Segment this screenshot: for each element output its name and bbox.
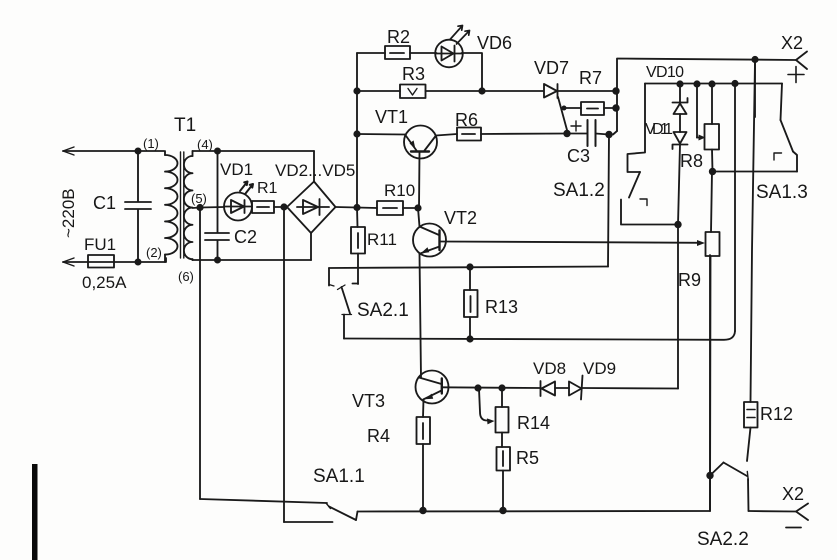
svg-text:VD7: VD7 — [534, 58, 569, 78]
wire bridge out to R10 — [336, 206, 358, 209]
wire bottom rail — [358, 255, 711, 512]
capacitor C3 — [567, 120, 609, 166]
node VD7 out — [612, 87, 619, 94]
potentiometer R9 — [678, 172, 720, 512]
wire corner to C3 minus — [609, 131, 617, 135]
wire to X2 minus — [749, 510, 797, 513]
svg-text:R4: R4 — [367, 426, 390, 446]
potentiometer R14 — [479, 388, 550, 447]
svg-text:R5: R5 — [516, 448, 539, 468]
svg-text:VT2: VT2 — [444, 208, 477, 228]
transformer T1 — [143, 115, 213, 284]
svg-text:VD2...VD5: VD2...VD5 — [275, 161, 355, 180]
node C1 top — [135, 148, 142, 155]
resistor R10 — [357, 181, 418, 215]
node R3/VD6 junction — [478, 87, 485, 94]
svg-text:C3: C3 — [567, 146, 590, 166]
svg-text:VD11: VD11 — [645, 121, 673, 138]
wire VD10 row — [645, 83, 782, 85]
wire bridge top drop — [313, 151, 315, 182]
switch SA1.1 — [200, 466, 365, 522]
node R7 left tap — [562, 106, 567, 111]
node VT1 row left — [353, 130, 360, 137]
wire pin5 row — [193, 207, 225, 208]
svg-text:~220В: ~220В — [59, 188, 78, 238]
svg-text:VD6: VD6 — [477, 33, 512, 53]
svg-text:(2): (2) — [146, 245, 162, 260]
resistor R11 — [351, 208, 397, 285]
zener VD11 — [645, 121, 688, 225]
node C2 top — [214, 148, 221, 155]
svg-text:C1: C1 — [93, 193, 116, 213]
node C3 plus — [563, 130, 570, 137]
wire left column — [356, 53, 358, 208]
svg-text:R9: R9 — [678, 270, 701, 290]
black scan bar — [32, 464, 38, 560]
wire secondary bottom rail (6) — [193, 259, 312, 261]
node R3 row left — [353, 87, 360, 94]
wire secondary top rail (4) — [193, 150, 315, 152]
svg-text:(6): (6) — [178, 269, 194, 284]
node C2 bottom — [214, 257, 221, 264]
switch SA1.2 — [553, 84, 678, 225]
svg-text:R7: R7 — [579, 68, 602, 88]
svg-text:VD8: VD8 — [533, 359, 566, 378]
node bridge out — [353, 204, 360, 211]
svg-text:VT1: VT1 — [375, 107, 408, 127]
resistor R2 — [357, 27, 437, 59]
resistor R5 — [497, 447, 540, 511]
svg-text:R12: R12 — [760, 404, 793, 424]
svg-text:(1): (1) — [143, 136, 159, 151]
wire R8 bottom row — [713, 171, 798, 173]
wire bridge bottom rise — [310, 233, 312, 260]
switch SA2.1 — [329, 268, 409, 339]
resistor R13 — [464, 267, 518, 339]
capacitor C1 — [93, 151, 151, 262]
node R8 top — [708, 80, 715, 87]
wire VT3 base row — [443, 386, 541, 389]
wire pin5 down to SA1.1 — [199, 208, 201, 500]
svg-text:SA1.2: SA1.2 — [553, 180, 605, 201]
node R13 bottom — [466, 335, 473, 342]
wire C3 minus down — [608, 135, 609, 267]
svg-text:R2: R2 — [387, 27, 410, 47]
transistor VT1 — [357, 107, 437, 208]
diode VD8 — [533, 359, 569, 396]
svg-text:SA2.1: SA2.1 — [357, 300, 409, 321]
node R8 bottom — [709, 168, 716, 175]
resistor R4 — [367, 417, 430, 511]
wire X2 plus column — [617, 59, 796, 132]
wire R1 node down to SA1.1 — [283, 207, 285, 522]
node R4 bottom — [419, 507, 426, 514]
svg-text:R8: R8 — [680, 151, 703, 171]
svg-text:VD10: VD10 — [646, 64, 684, 81]
diode VD9 — [569, 359, 678, 400]
svg-text:VT3: VT3 — [352, 391, 385, 411]
wire X2 plus down to R12 — [751, 62, 756, 402]
node pin5 — [196, 204, 203, 211]
svg-text:T1: T1 — [174, 115, 196, 136]
potentiometer R8 — [680, 84, 719, 172]
wire VT2 base to R9 wiper — [440, 242, 701, 243]
bridge rectifier VD2...VD5 — [275, 161, 355, 233]
node R10 right — [414, 204, 421, 211]
node C3 minus — [605, 131, 612, 138]
connector X2 minus — [782, 484, 808, 528]
svg-text:R3: R3 — [402, 64, 425, 84]
node R13 top — [466, 263, 473, 270]
svg-text:0,25A: 0,25A — [82, 273, 127, 292]
switch SA2.2 — [697, 463, 749, 551]
svg-text:R1: R1 — [257, 180, 278, 197]
wire right column x735 — [734, 84, 736, 332]
connector X2 plus — [781, 33, 807, 83]
wire AC bottom rail — [63, 258, 166, 262]
svg-text:X2: X2 — [782, 484, 804, 504]
resistor R6 — [436, 110, 567, 141]
svg-text:R10: R10 — [384, 181, 415, 200]
capacitor C2 — [205, 151, 257, 260]
node X2 top — [751, 56, 758, 63]
node x735 top — [731, 80, 738, 87]
svg-text:SA1.1: SA1.1 — [313, 466, 365, 487]
node C1 bottom — [135, 259, 142, 266]
node VD10 top — [676, 80, 683, 87]
fuse FU1 — [82, 235, 127, 292]
wire VD6 out corner — [462, 53, 483, 91]
node R14 top — [498, 384, 505, 391]
transistor VT3 — [352, 371, 449, 418]
switch SA1.3 — [755, 60, 808, 204]
arrow AC top — [63, 147, 74, 155]
resistor R3 — [357, 64, 482, 98]
svg-text:R11: R11 — [367, 230, 397, 249]
svg-text:X2: X2 — [781, 33, 803, 53]
diode VD7 — [534, 58, 569, 130]
svg-text:R14: R14 — [517, 413, 550, 433]
zener VD10 — [646, 64, 688, 132]
wire R3 row to VD7 — [482, 90, 543, 92]
wire AC top rail — [63, 150, 164, 152]
LED VD1 — [220, 160, 253, 221]
wire SA2.1 upper line to C3 minus — [329, 267, 608, 269]
node SA1.2 out — [674, 221, 681, 228]
svg-text:C2: C2 — [234, 227, 257, 247]
svg-text:R13: R13 — [485, 297, 518, 317]
resistor R1 — [252, 180, 287, 213]
resistor R12 — [744, 402, 793, 461]
svg-text:R6: R6 — [455, 110, 478, 130]
svg-text:(5): (5) — [191, 191, 207, 206]
wire SA2.1 bottom line — [344, 331, 735, 340]
svg-text:SA2.2: SA2.2 — [697, 529, 749, 550]
svg-text:SA1.3: SA1.3 — [756, 182, 808, 203]
svg-text:VD1: VD1 — [220, 160, 253, 179]
svg-text:(4): (4) — [197, 137, 213, 152]
arrow AC bottom — [63, 258, 74, 266]
node R5 bottom — [499, 507, 506, 514]
svg-text:VD9: VD9 — [583, 359, 616, 378]
arrow R9 wiper — [697, 240, 705, 246]
resistor R7 — [563, 68, 616, 115]
wire VD11 net down to VD9 row — [677, 225, 679, 389]
node R8 wiper top — [693, 80, 700, 87]
svg-text:FU1: FU1 — [84, 235, 116, 254]
node R1 out — [280, 203, 287, 210]
transistor VT2 — [413, 208, 477, 378]
wire VD7 cathode to X2 column — [558, 90, 617, 92]
node R7 right — [612, 104, 619, 111]
node R14 wiper — [474, 384, 481, 391]
LED VD6 — [435, 26, 512, 68]
node SA2.2 left — [706, 472, 713, 479]
